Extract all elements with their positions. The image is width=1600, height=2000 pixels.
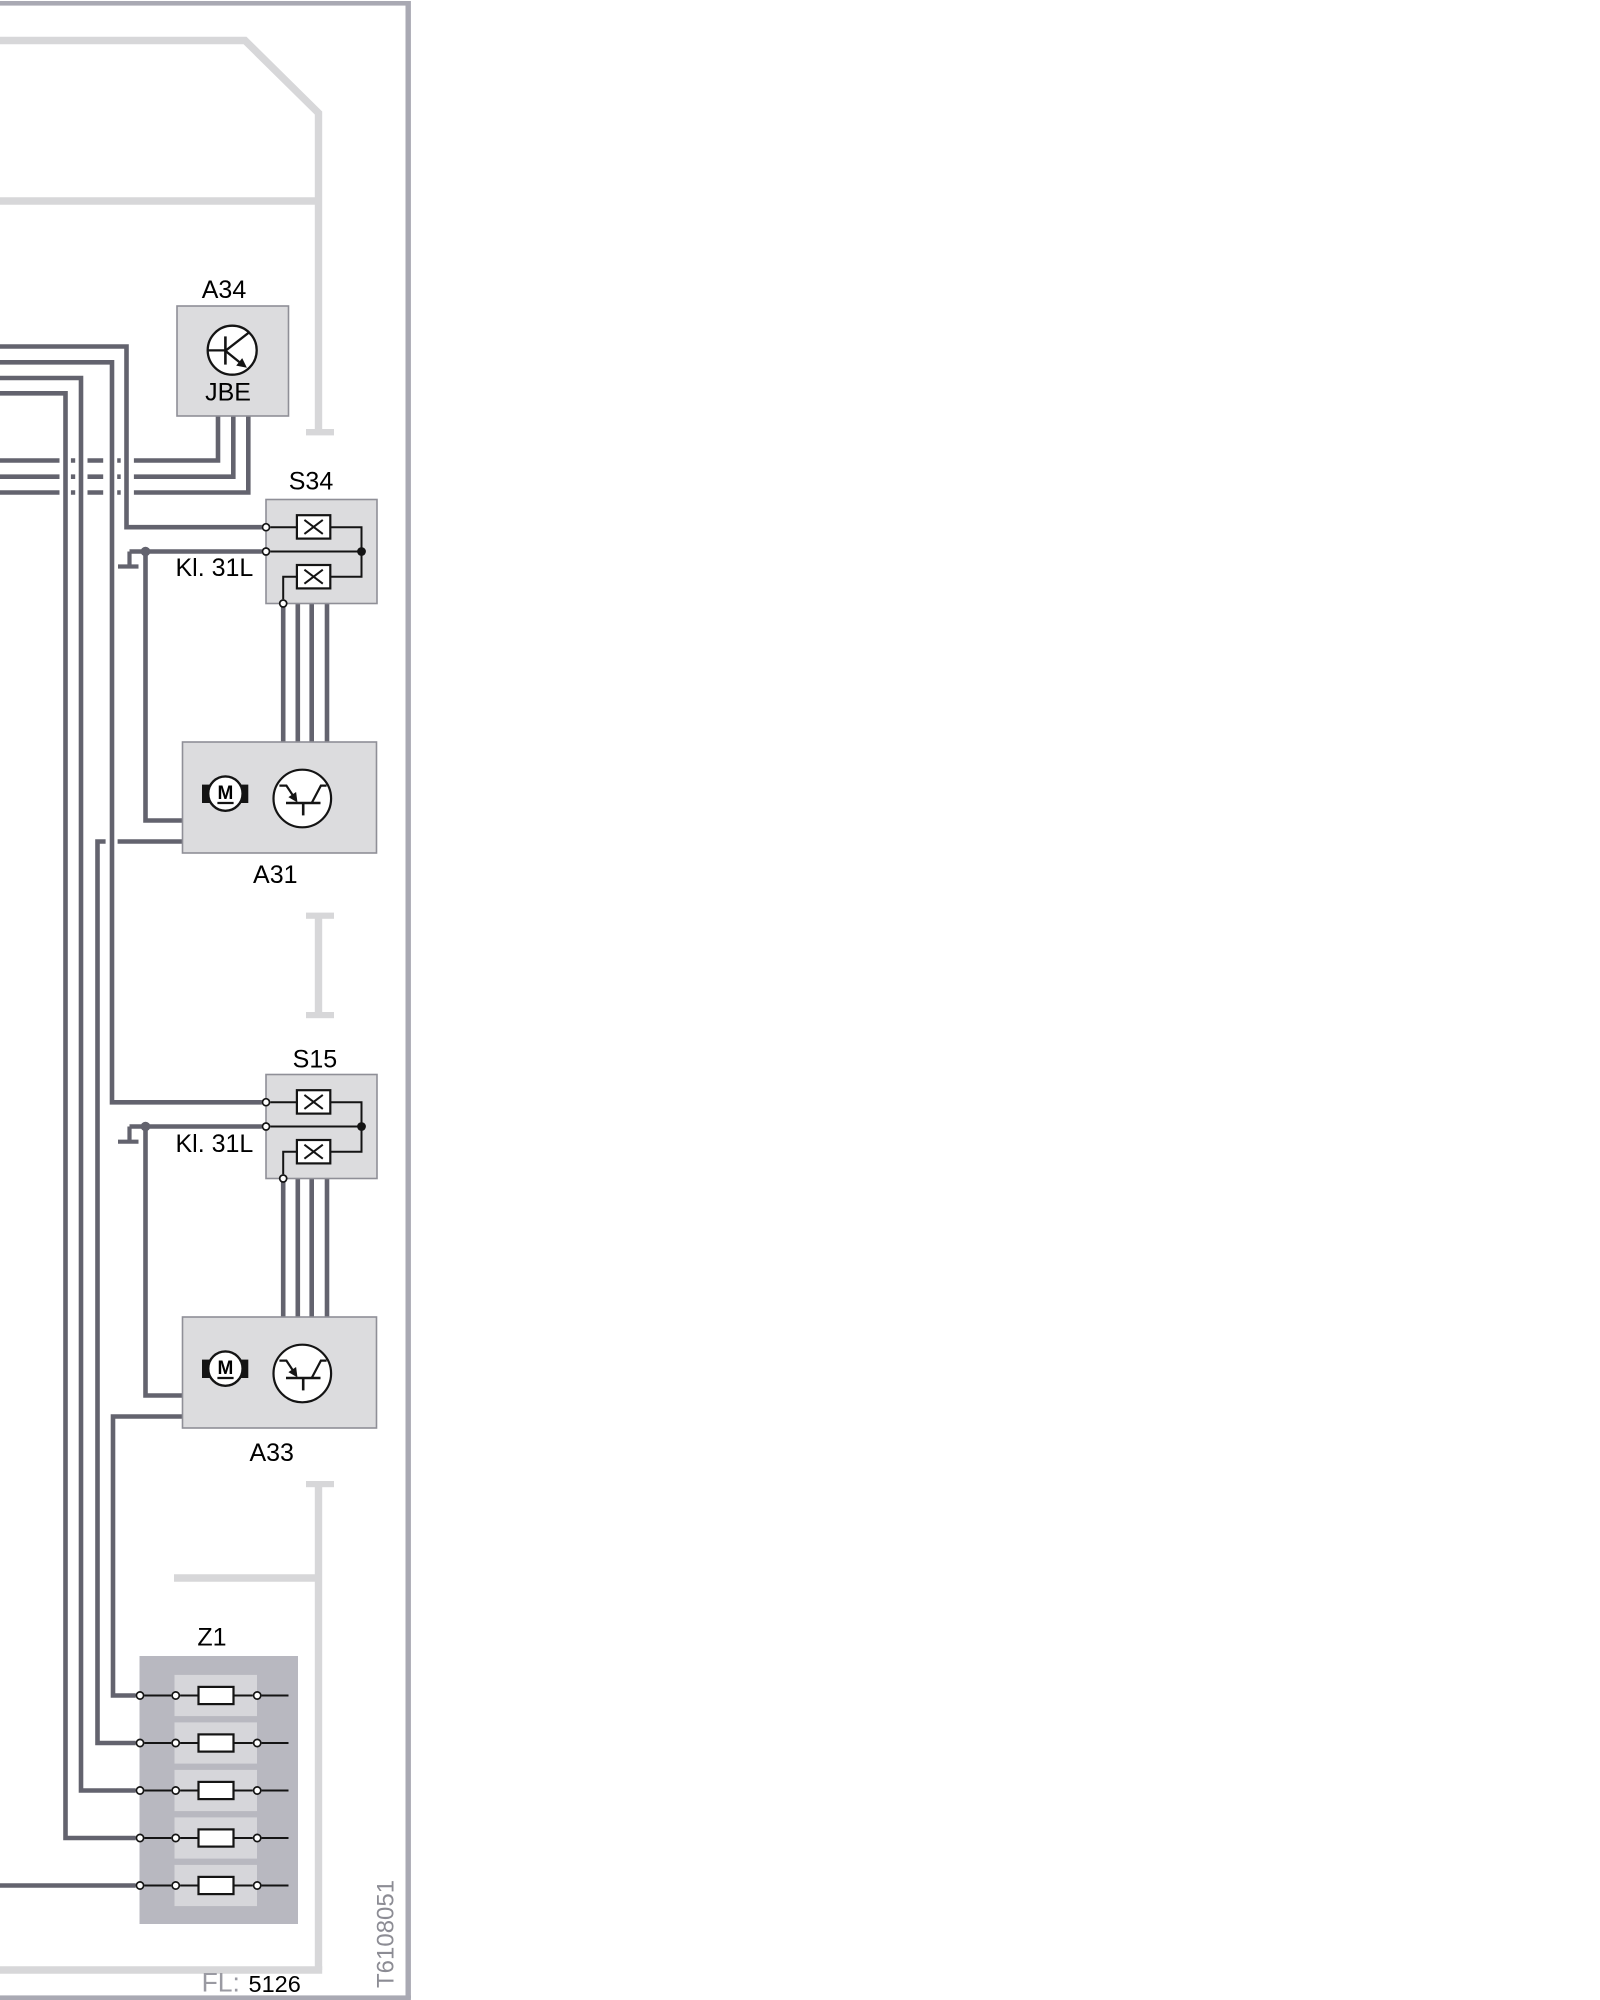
svg-text:Kl. 31L: Kl. 31L (176, 554, 254, 582)
fuse 3 of Z1 (136, 1770, 288, 1811)
S15 contact pin 2 (263, 1123, 270, 1130)
fuse 4 of Z1 (136, 1817, 288, 1858)
installation-location line second horizontal (0, 197, 319, 204)
fuse 2 of Z1 (136, 1722, 288, 1763)
end cap of location line (306, 429, 334, 435)
switch S34 box (266, 500, 377, 604)
wire A31 pin 2 to fuse 2 of Z1 (break at crossing) (98, 842, 183, 1744)
separator I-bar between A31 and S15 (306, 913, 334, 1019)
fuse 5 of Z1 (136, 1865, 288, 1906)
wire H2: net to S15 contact 1 (0, 362, 262, 1102)
terminal 31L stub at S34 (118, 552, 139, 567)
svg-text:M: M (217, 1358, 233, 1379)
wire A33 pin 2 to fuse 1 of Z1 (113, 1417, 183, 1696)
wire junction down to A31 pin 1 (146, 552, 183, 821)
wire JBE pin 1 (dash-dot run to left edge) (0, 416, 218, 461)
transistor symbol in A31 (274, 770, 332, 828)
wire S34 contact 2 to Kl.31L (130, 549, 262, 554)
control unit A34 box (177, 306, 289, 416)
svg-text:A31: A31 (253, 861, 297, 889)
transistor symbol in A33 (274, 1345, 332, 1403)
wire H4: net to fuse 4 of Z1 (0, 393, 136, 1838)
motor unit A31 box (183, 742, 377, 853)
transistor symbol in A34 (208, 326, 257, 375)
switch S15 box (266, 1075, 377, 1179)
svg-text:A34: A34 (202, 276, 247, 304)
wire JBE pin 2 (dash-dot run to left edge) (0, 416, 233, 477)
wire H1: net to S34 contact 1 (0, 347, 262, 528)
fuse 1 of Z1 (136, 1675, 288, 1716)
svg-text:A33: A33 (249, 1439, 293, 1467)
S34 contact pin 2 (263, 548, 270, 555)
S34 contact pin 3 (280, 600, 287, 607)
junction node at S34 wire (141, 547, 151, 557)
S15 contact pin 3 (280, 1175, 287, 1182)
svg-text:S34: S34 (289, 468, 334, 496)
wire H3: net to fuse 3 of Z1 (0, 378, 136, 1791)
svg-text:S15: S15 (293, 1046, 337, 1074)
S15 junction dot (357, 1122, 366, 1131)
wire junction down to A33 pin 1 (146, 1127, 183, 1396)
motor symbol in A31 (202, 776, 248, 810)
frame bottom border (0, 1995, 411, 2000)
wires S15 to A33 (4 verticals) (283, 1179, 327, 1318)
S34 junction dot (357, 547, 366, 556)
svg-text:Z1: Z1 (197, 1624, 226, 1652)
separator line below A33 down to bottom (0, 1481, 334, 1970)
junction node at S15 wire (141, 1122, 151, 1132)
svg-text:JBE: JBE (205, 379, 251, 407)
wire to fuse 5 of Z1 from left edge (0, 1883, 136, 1888)
terminal 31L stub at S15 (118, 1127, 139, 1142)
wire S15 contact 2 to Kl.31L (130, 1124, 262, 1129)
frame top border (0, 1, 411, 6)
S34 contact pin 1 (263, 524, 270, 531)
svg-text:T6108051: T6108051 (373, 1880, 400, 1988)
svg-text:M: M (217, 783, 233, 804)
wires S34 to A31 (4 verticals) (283, 604, 327, 743)
S15 contact pin 1 (263, 1099, 270, 1106)
svg-text:5126: 5126 (249, 1971, 301, 1997)
S15 internal circuit (270, 1090, 361, 1174)
installation-location line top-left with diagonal (0, 41, 319, 430)
motor symbol in A33 (202, 1351, 248, 1385)
svg-text:FL:: FL: (202, 1968, 240, 1998)
wire JBE pin 3 (dash-dot run to left edge) (0, 416, 248, 493)
fuse box Z1 outer (140, 1656, 299, 1924)
frame right border (406, 1, 411, 1999)
svg-text:Kl. 31L: Kl. 31L (176, 1130, 254, 1158)
S34 internal circuit (270, 515, 361, 599)
motor unit A33 box (183, 1317, 377, 1428)
